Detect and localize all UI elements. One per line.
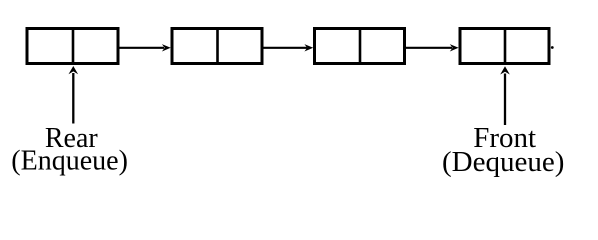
svg-text:(Enqueue): (Enqueue) xyxy=(11,145,128,176)
wire link 1 (box1 -> box2) xyxy=(119,44,171,51)
node box 3 xyxy=(315,27,405,64)
node box 2 xyxy=(172,27,262,64)
wire link 2 (box2 -> box3) xyxy=(263,44,313,51)
node box 4 (front node) xyxy=(460,27,549,64)
front pointer arrow (up arrow into box 4) xyxy=(500,66,510,125)
null terminator dot after box 4 xyxy=(551,46,554,49)
wire link 3 (box3 -> box4) xyxy=(406,44,459,51)
rear pointer arrow (up arrow into box 1) xyxy=(69,66,79,124)
svg-text:(Dequeue): (Dequeue) xyxy=(442,146,564,178)
node box 1 (rear node) xyxy=(27,27,118,64)
